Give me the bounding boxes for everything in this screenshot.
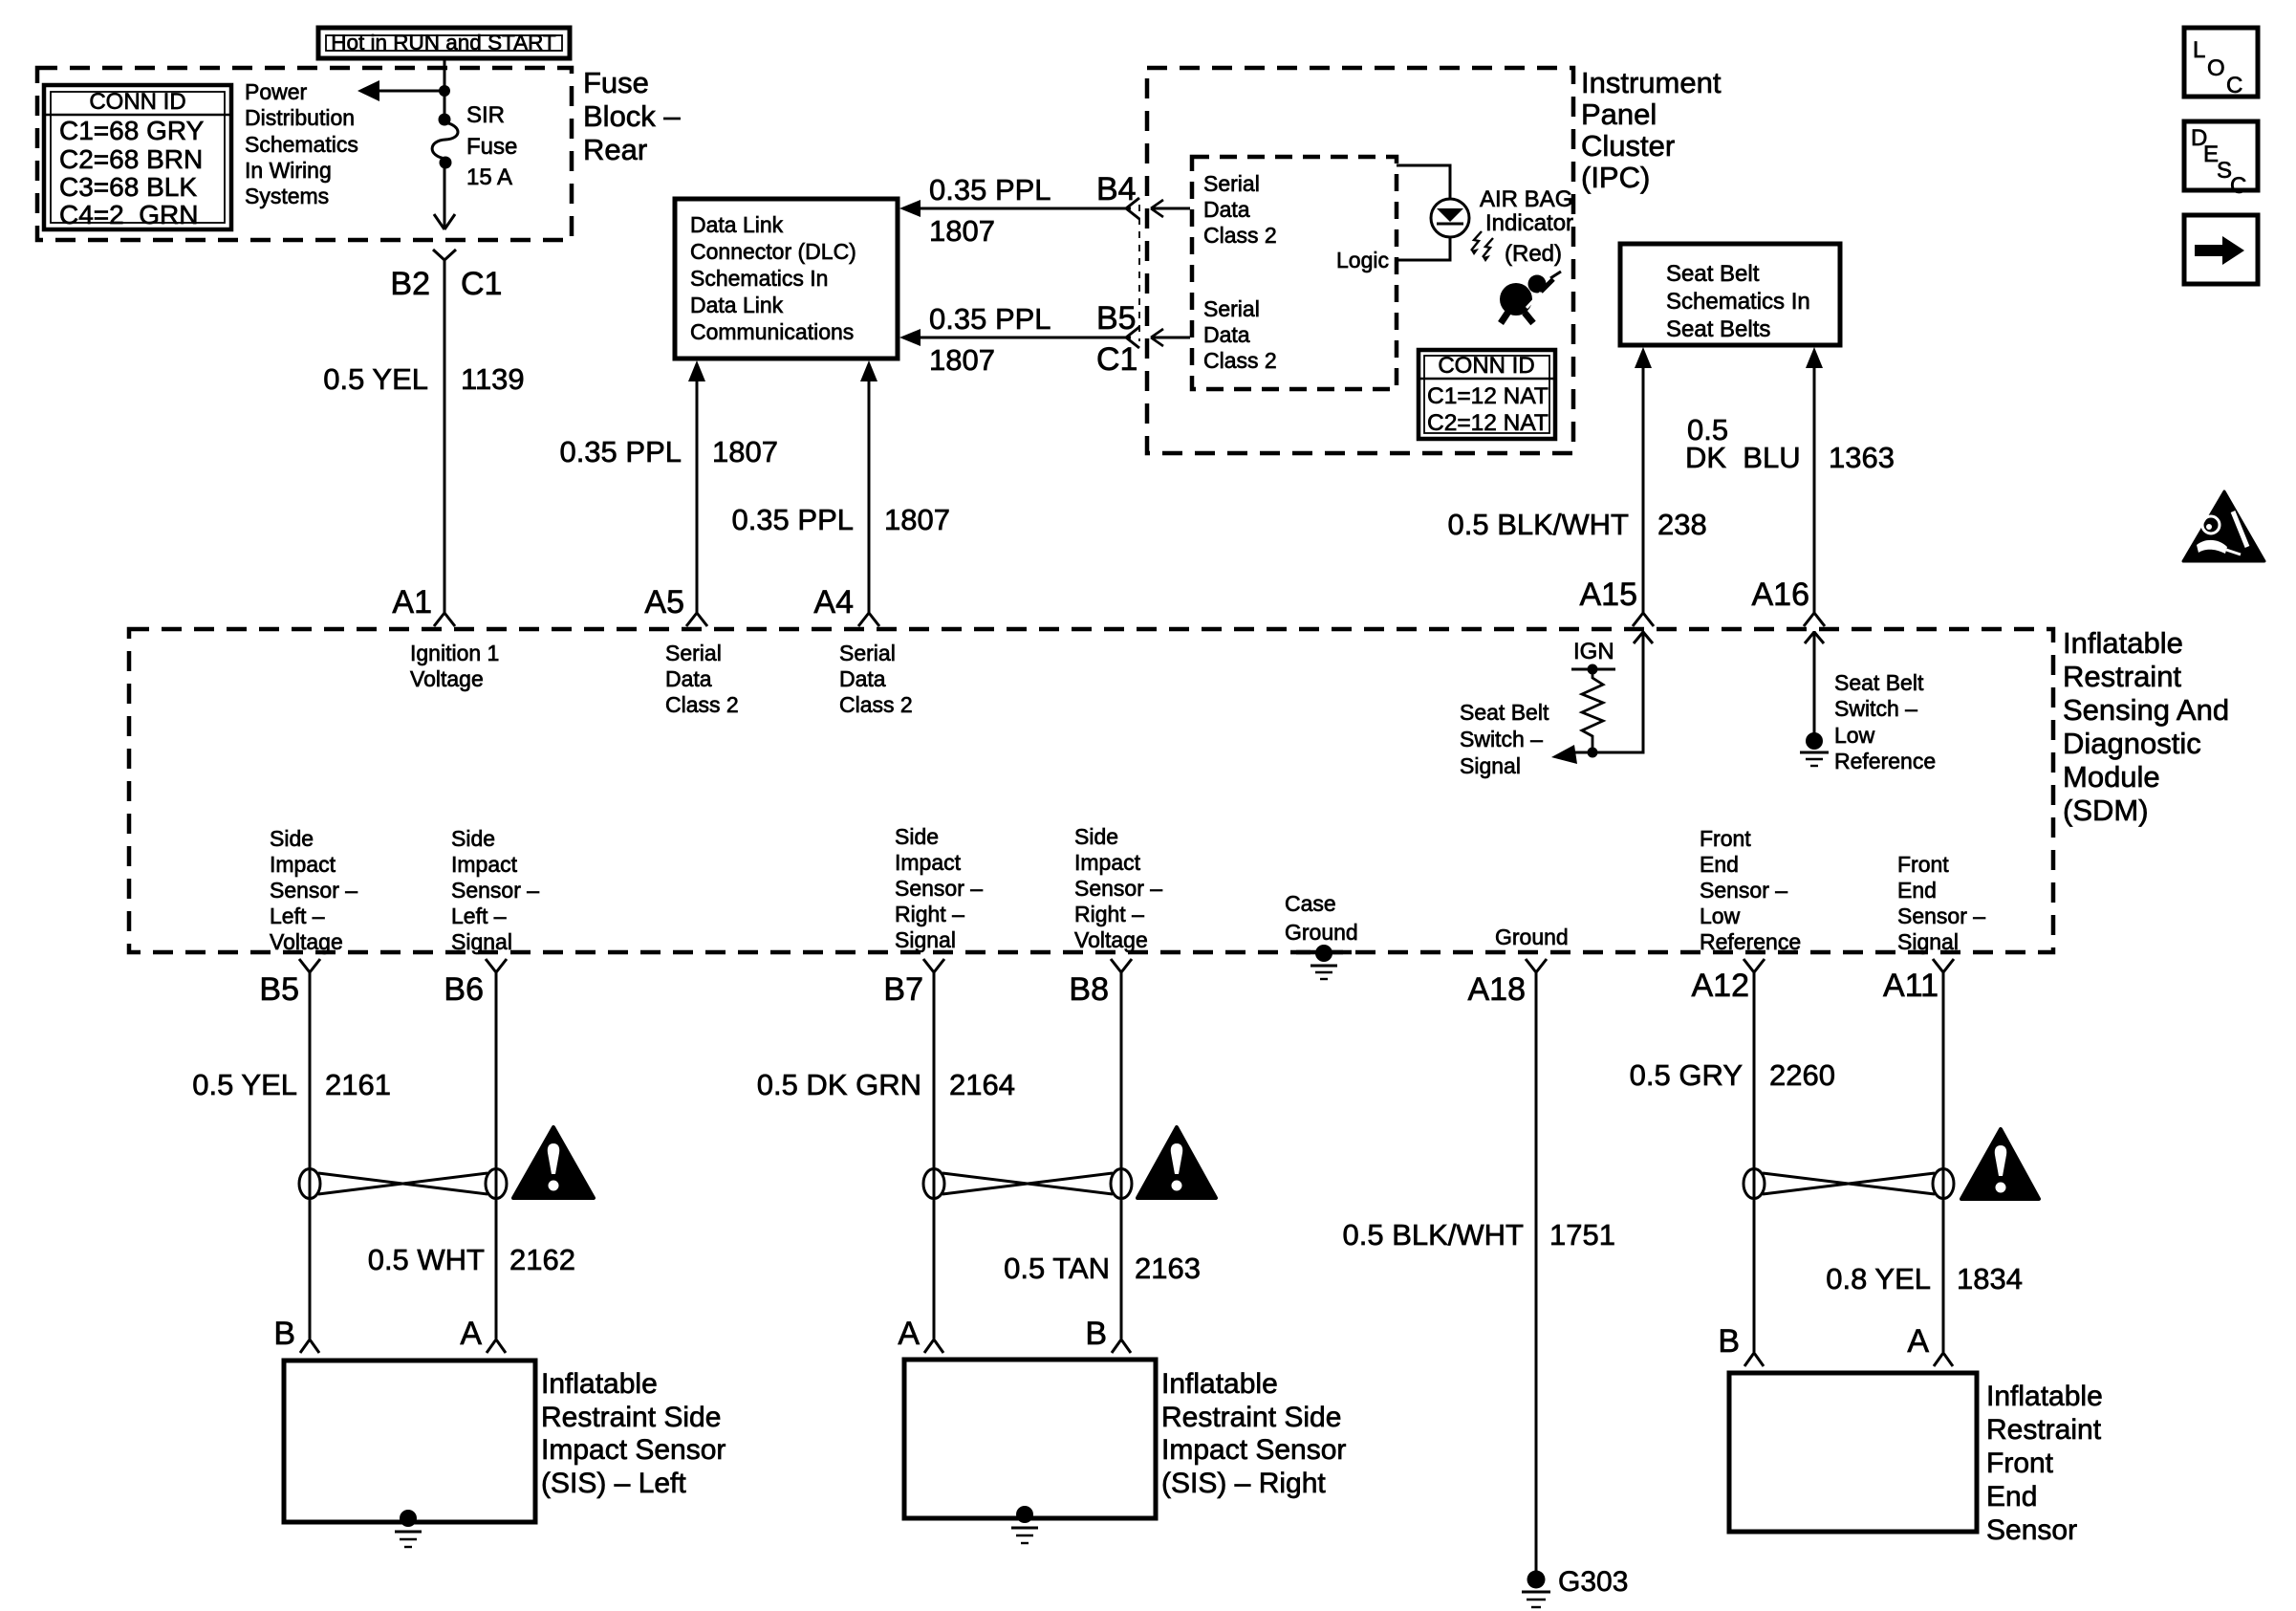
svg-text:Front: Front	[1897, 852, 1949, 877]
SIS left box: Inflatable Restraint Side Impact Sensor (SIS) - Left	[284, 1361, 726, 1522]
connector link (dashed) between B4 and B5	[1138, 205, 1140, 341]
svg-text:0.35 PPL: 0.35 PPL	[929, 302, 1051, 336]
label: Serial Data Class 2 (pin A4 function)	[839, 641, 913, 717]
wire: feed from Hot bus into fuse block	[444, 58, 446, 120]
svg-text:B6: B6	[444, 971, 484, 1008]
svg-text:Restraint: Restraint	[2063, 660, 2181, 693]
connector box: Hot in RUN and START	[318, 28, 570, 58]
svg-text:Voltage: Voltage	[1074, 927, 1148, 952]
svg-text:Systems: Systems	[245, 184, 329, 208]
svg-text:0.35 PPL: 0.35 PPL	[929, 173, 1051, 207]
connector pin A at front end sensor	[1907, 1323, 1953, 1366]
svg-text:1807: 1807	[929, 214, 995, 248]
node: resistor to A15 internal junction	[1588, 748, 1598, 758]
svg-text:Impact: Impact	[451, 852, 518, 877]
svg-text:Side: Side	[270, 826, 314, 851]
pin A15 of SDM	[1580, 577, 1655, 626]
pin A4 of SDM	[813, 584, 879, 626]
svg-text:Left –: Left –	[270, 903, 325, 928]
svg-text:Serial: Serial	[1203, 296, 1260, 321]
svg-text:Signal: Signal	[895, 927, 956, 952]
svg-text:15 A: 15 A	[466, 164, 512, 190]
svg-text:Impact Sensor: Impact Sensor	[541, 1434, 726, 1466]
svg-text:1834: 1834	[1957, 1262, 2023, 1295]
svg-text:AIR BAG: AIR BAG	[1480, 186, 1572, 212]
label: Front End Sensor - Signal (pin A11)	[1897, 852, 1985, 954]
wire: internal A15 to seat belt switch signal arrow	[1551, 631, 1653, 764]
svg-text:G303: G303	[1558, 1566, 1628, 1598]
svg-text:B5: B5	[259, 971, 299, 1008]
pin A5 of SDM	[644, 584, 707, 626]
LED light emission arrows	[1471, 231, 1493, 262]
svg-text:Class 2: Class 2	[839, 692, 913, 717]
svg-text:Voltage: Voltage	[410, 666, 484, 691]
svg-text:Rear: Rear	[583, 133, 647, 166]
svg-text:A: A	[460, 1316, 482, 1352]
svg-text:0.5 YEL: 0.5 YEL	[192, 1068, 297, 1101]
svg-text:A15: A15	[1580, 577, 1638, 613]
svg-text:Sensor –: Sensor –	[895, 876, 983, 901]
svg-text:CONN ID: CONN ID	[1438, 353, 1534, 379]
svg-text:Fuse: Fuse	[583, 66, 649, 99]
svg-text:C1: C1	[461, 266, 502, 302]
svg-text:Panel: Panel	[1581, 98, 1657, 131]
svg-text:Class 2: Class 2	[1203, 348, 1277, 373]
wire 1139: 0.5 YEL from C1 to SDM A1	[323, 260, 524, 613]
svg-text:Serial: Serial	[1203, 171, 1260, 196]
note: Power Distribution Schematics In Wiring Systems	[245, 79, 358, 208]
svg-text:Data Link: Data Link	[690, 212, 784, 237]
svg-text:Inflatable: Inflatable	[1986, 1381, 2103, 1412]
connector pin A at SIS left	[460, 1316, 506, 1353]
svg-text:Data: Data	[1203, 197, 1250, 222]
svg-text:Restraint Side: Restraint Side	[1161, 1402, 1341, 1433]
fuse block dashed box: Fuse Block - Rear	[37, 68, 572, 240]
svg-text:A5: A5	[644, 584, 684, 620]
svg-text:Data Link: Data Link	[690, 293, 784, 317]
svg-text:Sensor –: Sensor –	[1074, 876, 1162, 901]
svg-text:O: O	[2207, 55, 2225, 81]
svg-text:Reference: Reference	[1834, 749, 1936, 773]
svg-text:A: A	[1907, 1323, 1929, 1360]
svg-text:Side: Side	[451, 826, 495, 851]
legend box: LOC	[2184, 28, 2258, 98]
svg-text:Schematics: Schematics	[245, 132, 358, 157]
svg-text:Ignition 1: Ignition 1	[410, 641, 499, 665]
svg-text:C1=68 GRY: C1=68 GRY	[59, 116, 205, 145]
svg-text:Instrument: Instrument	[1581, 66, 1722, 99]
svg-text:0.5 YEL: 0.5 YEL	[323, 362, 428, 396]
svg-text:Sensor –: Sensor –	[1897, 903, 1985, 928]
svg-text:Reference: Reference	[1700, 929, 1801, 954]
wire 1807: 0.35 PPL from SDM A4 up to DLC	[731, 360, 950, 613]
legend box: DESC	[2184, 121, 2258, 199]
twisted pair: front end sensor harness	[1744, 1169, 1954, 1199]
svg-text:2163: 2163	[1135, 1252, 1201, 1285]
svg-text:0.5 DK GRN: 0.5 DK GRN	[757, 1068, 921, 1101]
svg-text:End: End	[1700, 852, 1739, 877]
twisted pair: right SIS harness	[923, 1169, 1132, 1199]
ground at SIS left case	[395, 1510, 422, 1547]
svg-text:Case: Case	[1285, 891, 1336, 916]
svg-text:1807: 1807	[929, 343, 995, 377]
svg-text:Impact: Impact	[270, 852, 336, 877]
svg-text:Front: Front	[1986, 1448, 2054, 1479]
svg-text:Restraint Side: Restraint Side	[541, 1402, 721, 1433]
svg-text:0.8 YEL: 0.8 YEL	[1826, 1262, 1931, 1295]
svg-text:Sensor –: Sensor –	[1700, 878, 1787, 903]
svg-text:B5: B5	[1096, 300, 1137, 337]
svg-text:Side: Side	[1074, 824, 1118, 849]
svg-text:B7: B7	[883, 971, 923, 1008]
svg-text:Sensor –: Sensor –	[451, 878, 539, 903]
svg-text:A16: A16	[1752, 577, 1810, 613]
svg-text:(SIS) – Left: (SIS) – Left	[541, 1468, 686, 1499]
wire 2164: 0.5 DK GRN from B7 to SIS right	[757, 972, 1015, 1339]
svg-text:1751: 1751	[1549, 1218, 1615, 1252]
svg-text:B: B	[1085, 1316, 1107, 1352]
LED: AIR BAG indicator lamp	[1397, 165, 1469, 260]
svg-text:SIR: SIR	[466, 102, 505, 128]
front end sensor box: Inflatable Restraint Front End Sensor	[1729, 1373, 2103, 1546]
label: AIR BAG Indicator (Red)	[1480, 186, 1573, 267]
svg-text:DK BLU: DK BLU	[1685, 441, 1801, 474]
svg-text:Inflatable: Inflatable	[1161, 1368, 1278, 1400]
svg-text:Signal: Signal	[451, 929, 512, 954]
wire: tap to power distribution schematics (left arrow)	[357, 80, 444, 101]
connector pin B at SIS right	[1085, 1316, 1131, 1353]
svg-text:C1: C1	[1096, 341, 1137, 378]
label: Seat Belt Switch - Signal	[1460, 700, 1549, 778]
svg-text:(SIS) – Right: (SIS) – Right	[1161, 1468, 1326, 1499]
svg-text:A18: A18	[1468, 971, 1527, 1008]
svg-text:(IPC): (IPC)	[1581, 161, 1650, 194]
DLC box: Data Link Connector schematics	[675, 199, 898, 359]
label: Fuse Block - Rear	[583, 66, 681, 166]
svg-text:C1=12 NAT: C1=12 NAT	[1427, 383, 1549, 409]
svg-text:Sensor –: Sensor –	[270, 878, 357, 903]
svg-text:Connector (DLC): Connector (DLC)	[690, 239, 856, 264]
svg-text:Inflatable: Inflatable	[541, 1368, 658, 1400]
svg-text:Impact Sensor: Impact Sensor	[1161, 1434, 1346, 1466]
svg-text:2164: 2164	[949, 1068, 1015, 1101]
svg-text:Front: Front	[1700, 826, 1751, 851]
label: Side Impact Sensor - Left - Signal (pin B6)	[451, 826, 539, 954]
wire 1834: 0.8 YEL from A11 to front end sensor	[1826, 972, 2023, 1352]
svg-text:End: End	[1986, 1481, 2037, 1513]
legend box: forward arrow	[2184, 215, 2258, 284]
label: Seat Belt Switch - Low Reference	[1834, 670, 1936, 773]
wire: fuse output down to B2 with arrowhead	[434, 165, 455, 229]
svg-text:1807: 1807	[712, 435, 778, 468]
connector chevron at IPC B5	[1126, 327, 1139, 348]
wire 2163: 0.5 TAN from B8 to SIS right	[1004, 972, 1201, 1339]
svg-text:A: A	[898, 1316, 920, 1352]
svg-text:(SDM): (SDM)	[2063, 794, 2149, 827]
svg-text:Fuse: Fuse	[466, 134, 517, 160]
svg-text:End: End	[1897, 878, 1937, 903]
label: Ignition 1 Voltage (pin A1 function)	[410, 641, 499, 691]
label: serial data class 2 (lower) with arrow out	[1151, 296, 1277, 373]
svg-text:B: B	[1718, 1323, 1740, 1360]
pin A12 of SDM	[1692, 959, 1765, 1004]
svg-text:In Wiring: In Wiring	[245, 158, 332, 183]
svg-text:238: 238	[1657, 508, 1707, 541]
connector chevron at IPC B4	[1126, 198, 1139, 219]
svg-text:A11: A11	[1883, 968, 1939, 1004]
svg-text:0.5 BLK/WHT: 0.5 BLK/WHT	[1448, 508, 1630, 541]
svg-text:Class 2: Class 2	[665, 692, 739, 717]
svg-text:Communications: Communications	[690, 319, 854, 344]
svg-text:Sensing And: Sensing And	[2063, 693, 2229, 727]
svg-text:C: C	[2230, 173, 2246, 199]
wire 2161: 0.5 YEL from B5 to SIS left	[192, 972, 391, 1339]
pin A16 of SDM	[1752, 577, 1826, 626]
connector pin B at front end sensor	[1718, 1323, 1764, 1366]
connector pin B at SIS left	[273, 1316, 319, 1353]
svg-text:Module: Module	[2063, 760, 2160, 794]
twisted pair: left SIS harness	[299, 1169, 507, 1199]
wire 1751: 0.5 BLK/WHT from A18 to G303	[1343, 972, 1615, 1573]
svg-text:0.35 PPL: 0.35 PPL	[559, 435, 682, 468]
resistor: seat belt switch pull-up	[1582, 673, 1603, 752]
svg-text:Low: Low	[1700, 903, 1741, 928]
svg-text:B8: B8	[1069, 971, 1109, 1008]
pin A11 of SDM	[1883, 959, 1954, 1004]
pin B7 of SDM	[883, 959, 944, 1008]
svg-text:2260: 2260	[1769, 1058, 1835, 1092]
svg-text:L: L	[2193, 37, 2205, 63]
IPC outer dashed box	[1147, 68, 1573, 453]
SDM dashed box: Inflatable Restraint Sensing And Diagnostic Module	[129, 629, 2053, 952]
svg-text:Data: Data	[1203, 322, 1250, 347]
label: Side Impact Sensor - Right - Signal (pin B7)	[895, 824, 983, 952]
svg-text:2161: 2161	[325, 1068, 391, 1101]
pin B8 of SDM	[1069, 959, 1132, 1008]
svg-text:0.35 PPL: 0.35 PPL	[731, 503, 854, 536]
svg-text:Signal: Signal	[1897, 929, 1959, 954]
svg-text:Seat Belt: Seat Belt	[1666, 261, 1760, 287]
IPC inner dashed box (logic block)	[1192, 157, 1397, 389]
svg-text:Right –: Right –	[1074, 902, 1144, 926]
svg-text:1139: 1139	[461, 362, 525, 396]
svg-text:Ground: Ground	[1495, 925, 1569, 949]
svg-text:Schematics In: Schematics In	[690, 266, 828, 291]
warning triangle (left SIS)	[513, 1127, 594, 1198]
label: Side Impact Sensor - Right - Voltage (pin B8)	[1074, 824, 1162, 952]
svg-text:Hot in RUN and START: Hot in RUN and START	[331, 31, 556, 54]
wire: internal A16 to ground (seat belt switch low reference)	[1800, 631, 1829, 766]
svg-text:Data: Data	[665, 666, 712, 691]
svg-text:Cluster: Cluster	[1581, 129, 1675, 163]
svg-text:Left –: Left –	[451, 903, 507, 928]
label: serial data class 2 (upper) with arrow out	[1151, 171, 1277, 248]
CONN ID table (IPC)	[1419, 350, 1555, 439]
ground at SIS right case	[1011, 1506, 1038, 1543]
svg-text:Seat Belt: Seat Belt	[1460, 700, 1549, 725]
svg-text:B4: B4	[1096, 171, 1137, 207]
svg-text:Class 2: Class 2	[1203, 223, 1277, 248]
wire 2260: 0.5 GRY from A12 to front end sensor	[1630, 972, 1835, 1352]
svg-text:CONN ID: CONN ID	[89, 89, 185, 115]
svg-text:Switch –: Switch –	[1460, 727, 1543, 751]
internal: seat belt switch signal pull-up, IGN node	[1571, 639, 1615, 675]
pin A1 of SDM	[392, 584, 455, 626]
warning triangle (right SIS)	[1137, 1127, 1216, 1198]
svg-text:Indicator: Indicator	[1485, 210, 1573, 236]
label: Serial Data Class 2 (pin A5 function)	[665, 641, 739, 717]
svg-text:Seat Belt: Seat Belt	[1834, 670, 1924, 695]
svg-text:IGN: IGN	[1573, 639, 1614, 664]
svg-text:Diagnostic: Diagnostic	[2063, 727, 2201, 760]
svg-text:Low: Low	[1834, 723, 1875, 748]
svg-text:Serial: Serial	[665, 641, 722, 665]
svg-text:Inflatable: Inflatable	[2063, 626, 2183, 660]
svg-text:Distribution: Distribution	[245, 105, 355, 130]
wire 1807: 0.35 PPL from SDM A5 up to DLC	[559, 360, 778, 613]
wire 238: 0.5 BLK/WHT from SDM A15 to seat belt switch	[1448, 347, 1707, 613]
connector B2/C1 (fuse block to SDM harness)	[390, 250, 502, 302]
svg-text:A12: A12	[1692, 968, 1750, 1004]
case ground symbol on SDM case	[1285, 891, 1358, 979]
svg-text:2162: 2162	[509, 1243, 575, 1276]
wire 1363: 0.5 DK BLU from SDM A16 to seat belt switch	[1685, 347, 1895, 613]
svg-text:A4: A4	[813, 584, 854, 620]
svg-text:0.5 WHT: 0.5 WHT	[368, 1243, 485, 1276]
svg-text:(Red): (Red)	[1505, 241, 1562, 267]
ground G303	[1522, 1566, 1628, 1607]
svg-text:Data: Data	[839, 666, 886, 691]
label: Front End Sensor - Low Reference (pin A12)	[1700, 826, 1801, 954]
warning triangle (front end sensor)	[1961, 1129, 2039, 1199]
node: junction at power distribution tap	[439, 85, 450, 97]
svg-text:B: B	[273, 1316, 295, 1352]
svg-text:A1: A1	[392, 584, 432, 620]
svg-text:Schematics In: Schematics In	[1666, 289, 1810, 315]
icon: airbag deployment pictograph	[1500, 272, 1561, 323]
pin A18 of SDM	[1468, 959, 1548, 1008]
label: SDM title	[2063, 626, 2229, 827]
svg-text:C: C	[2226, 73, 2242, 98]
wire 1807: 0.35 PPL from IPC B4 to DLC (upper serial data)	[899, 171, 1137, 248]
svg-text:Impact: Impact	[1074, 850, 1141, 875]
svg-text:0.5 TAN: 0.5 TAN	[1004, 1252, 1110, 1285]
svg-text:Block –: Block –	[583, 99, 681, 133]
CONN ID table (fuse block)	[44, 85, 231, 229]
svg-text:0.5 BLK/WHT: 0.5 BLK/WHT	[1343, 1218, 1525, 1252]
connector pin A at SIS right	[898, 1316, 943, 1353]
svg-text:Switch –: Switch –	[1834, 696, 1917, 721]
svg-text:C4=2 GRN: C4=2 GRN	[59, 200, 199, 229]
label: Side Impact Sensor - Left - Voltage (pin B5)	[270, 826, 357, 954]
svg-text:Side: Side	[895, 824, 939, 849]
SIS right box: Inflatable Restraint Side Impact Sensor (SIS) - Right	[904, 1360, 1346, 1518]
warning symbol: SIR caution triangle (airbag)	[2183, 491, 2264, 561]
svg-text:Impact: Impact	[895, 850, 962, 875]
svg-text:C3=68 BLK: C3=68 BLK	[59, 172, 197, 202]
pin B5 of SDM	[259, 959, 320, 1008]
wire 2162: 0.5 WHT from B6 to SIS left	[368, 972, 575, 1339]
svg-text:Logic: Logic	[1336, 248, 1389, 272]
svg-text:Power: Power	[245, 79, 308, 104]
svg-text:Voltage: Voltage	[270, 929, 343, 954]
svg-text:Serial: Serial	[839, 641, 896, 665]
svg-text:Restraint: Restraint	[1986, 1414, 2102, 1446]
svg-text:Right –: Right –	[895, 902, 964, 926]
pin B6 of SDM	[444, 959, 507, 1008]
svg-text:C2=68 BRN: C2=68 BRN	[59, 144, 203, 174]
fuse: SIR Fuse 15 A	[432, 102, 517, 190]
svg-text:1807: 1807	[884, 503, 950, 536]
svg-text:Seat Belts: Seat Belts	[1666, 316, 1770, 342]
svg-text:0.5 GRY: 0.5 GRY	[1630, 1058, 1743, 1092]
svg-text:Sensor: Sensor	[1986, 1514, 2077, 1546]
Seat Belt schematics box	[1620, 244, 1840, 345]
wire 1807: 0.35 PPL from IPC B5/C1 to DLC (lower serial data)	[899, 300, 1137, 378]
label: Instrument Panel Cluster (IPC)	[1581, 66, 1722, 194]
svg-text:Signal: Signal	[1460, 753, 1521, 778]
svg-text:1363: 1363	[1829, 441, 1895, 474]
svg-text:C2=12 NAT: C2=12 NAT	[1427, 410, 1549, 436]
svg-text:Ground: Ground	[1285, 920, 1358, 945]
svg-text:B2: B2	[390, 266, 430, 302]
